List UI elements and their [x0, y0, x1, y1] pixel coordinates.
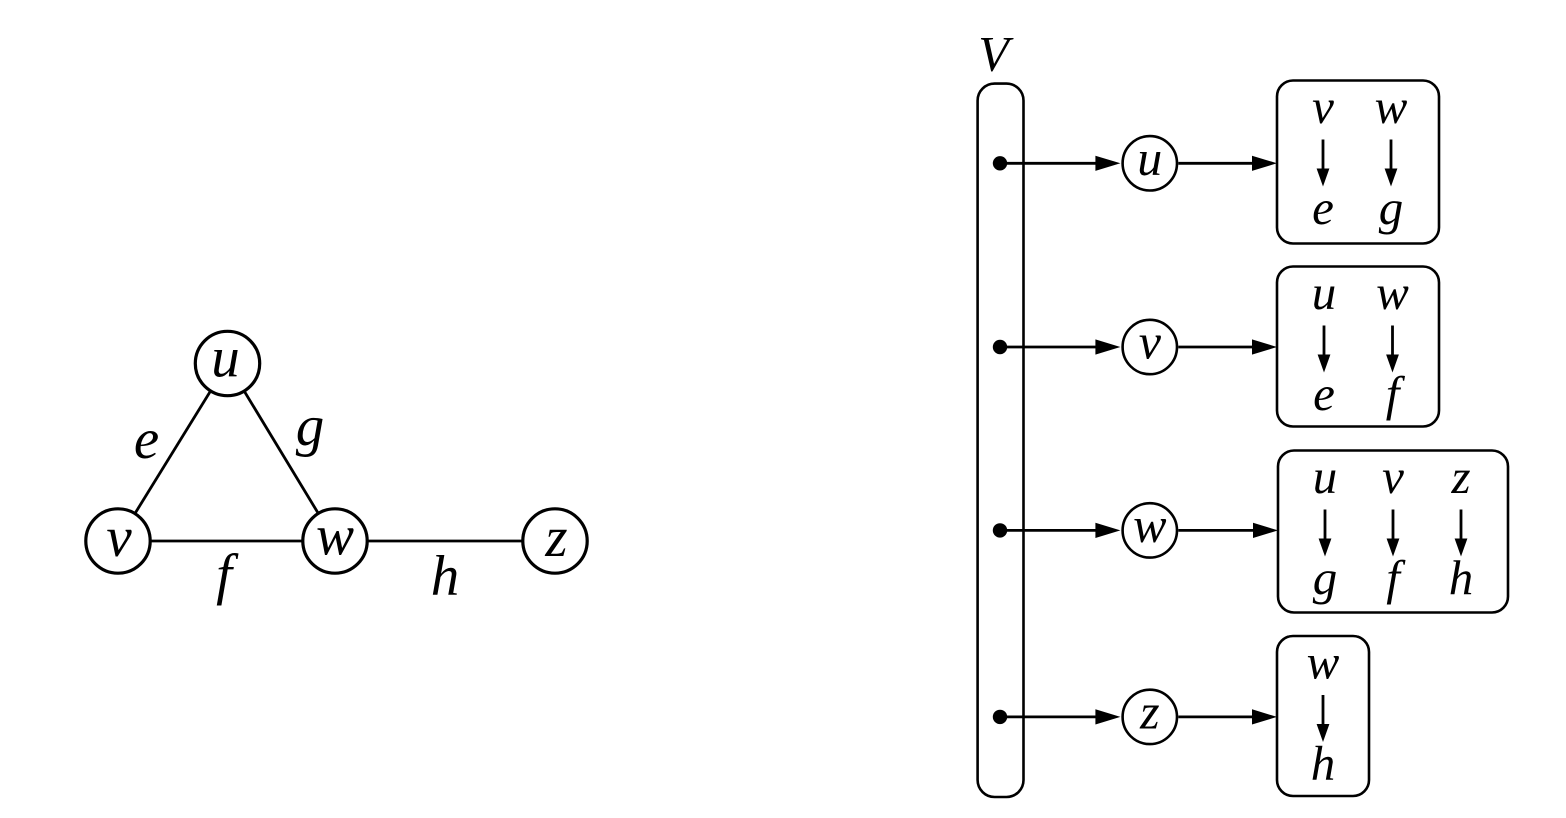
box w: map arrow v to f: [1387, 510, 1400, 557]
node v: [86, 506, 150, 573]
svg-text:u: u: [1312, 265, 1337, 320]
arrow V to v: [1000, 339, 1120, 354]
svg-text:w: w: [316, 505, 354, 568]
svg-text:z: z: [1139, 683, 1159, 739]
incidence box of v: [1277, 267, 1439, 427]
svg-text:V: V: [978, 26, 1014, 82]
arrow V to w: [1000, 523, 1120, 538]
node v slot dot: [993, 340, 1007, 354]
svg-text:w: w: [1375, 79, 1408, 134]
box u: map arrow v to e: [1317, 140, 1330, 187]
box w: edge h: [1449, 550, 1474, 605]
box z: vertex w: [1307, 635, 1340, 690]
arrow w to incidence box: [1178, 523, 1278, 538]
svg-text:g: g: [1379, 180, 1404, 235]
array V rounded rect: [978, 84, 1024, 797]
svg-text:e: e: [134, 408, 159, 471]
svg-text:w: w: [1376, 265, 1409, 320]
node w list head circle: [1123, 497, 1177, 558]
node z: [523, 506, 587, 573]
incidence box of u: [1277, 81, 1439, 244]
svg-text:w: w: [1307, 635, 1340, 690]
box w: map arrow u to g: [1319, 510, 1332, 557]
box v: edge e: [1313, 366, 1335, 421]
node w: [303, 505, 367, 574]
incidence box of w: [1278, 451, 1508, 613]
box w: map arrow z to h: [1455, 510, 1468, 557]
svg-text:f: f: [1386, 366, 1406, 421]
label g: [296, 395, 325, 458]
box v: vertex w: [1376, 265, 1409, 320]
label V: [978, 26, 1014, 82]
svg-text:w: w: [1133, 497, 1166, 553]
wire edge g (u-w): [228, 364, 336, 542]
svg-text:g: g: [296, 395, 325, 458]
wire edge h (w-z): [335, 540, 555, 543]
svg-text:z: z: [544, 506, 567, 569]
box u: vertex w: [1375, 79, 1408, 134]
box z: map arrow w to h: [1317, 695, 1330, 742]
box w: vertex z: [1450, 449, 1470, 504]
box w: vertex v: [1382, 449, 1404, 504]
box u: map arrow w to g: [1385, 140, 1398, 187]
svg-text:v: v: [1312, 79, 1334, 134]
node u: [195, 327, 259, 396]
label h: [431, 545, 460, 608]
box v: vertex u: [1312, 265, 1337, 320]
svg-text:v: v: [106, 506, 132, 569]
svg-text:h: h: [1449, 550, 1474, 605]
node v list head circle: [1123, 314, 1177, 375]
box u: edge e: [1312, 180, 1334, 235]
label e: [134, 408, 159, 471]
box w: vertex u: [1313, 449, 1338, 504]
svg-text:f: f: [1386, 550, 1406, 605]
label f: [216, 544, 239, 607]
box v: edge f: [1386, 366, 1406, 421]
svg-text:u: u: [1313, 449, 1338, 504]
wire edge e (u-v): [118, 364, 228, 542]
box v: map arrow w to f: [1386, 326, 1399, 373]
svg-text:v: v: [1139, 314, 1162, 370]
node z slot dot: [993, 710, 1007, 724]
arrow z to incidence box: [1178, 709, 1277, 724]
node u slot dot: [993, 156, 1007, 170]
box z: edge h: [1311, 736, 1336, 791]
box u: edge g: [1379, 180, 1404, 235]
node z list head circle: [1123, 683, 1177, 744]
svg-text:u: u: [1137, 130, 1162, 186]
box w: edge g: [1313, 550, 1338, 605]
svg-text:g: g: [1313, 550, 1338, 605]
box v: map arrow u to e: [1318, 326, 1331, 373]
node w slot dot: [993, 523, 1007, 537]
box w: edge f: [1386, 550, 1406, 605]
node u list head circle: [1123, 130, 1177, 191]
box u: vertex v: [1312, 79, 1334, 134]
svg-text:v: v: [1382, 449, 1404, 504]
svg-text:e: e: [1312, 180, 1334, 235]
arrow V to z: [1000, 709, 1120, 724]
incidence box of z: [1277, 636, 1369, 796]
arrow v to incidence box: [1178, 339, 1277, 354]
svg-text:z: z: [1450, 449, 1470, 504]
arrow u to incidence box: [1178, 156, 1277, 171]
svg-text:e: e: [1313, 366, 1335, 421]
svg-text:f: f: [216, 544, 239, 607]
wire edge f (v-w): [118, 540, 335, 543]
arrow V to u: [1000, 156, 1120, 171]
svg-text:h: h: [431, 545, 460, 608]
svg-text:u: u: [211, 327, 240, 390]
svg-text:h: h: [1311, 736, 1336, 791]
